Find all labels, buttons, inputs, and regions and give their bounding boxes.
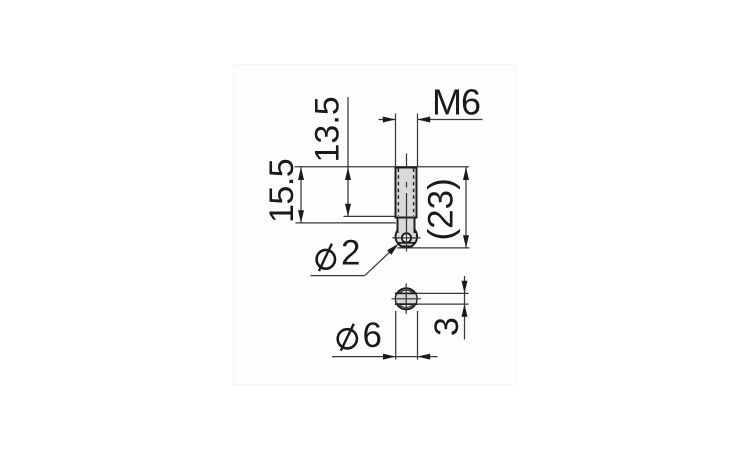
ball horizontal centerline [392,237,420,239]
extension line 13.5 bottom [344,215,397,217]
svg-text:3: 3 [428,317,466,336]
extension lines M6 [396,114,418,167]
threaded body M6 [396,168,417,218]
dimension line 15.5 [298,167,304,223]
extension line (23) bottom [397,247,470,249]
ball phi2 [402,233,411,242]
drawing panel background [234,65,516,385]
cylinder below thread [398,219,415,237]
svg-text:15.5: 15.5 [263,159,301,223]
dimension line 13.5 [345,97,351,216]
top extension line (shared, y=166.8) [295,166,470,168]
slot extension lines for 3 [418,293,469,304]
svg-text:2: 2 [341,234,360,273]
svg-text:(23): (23) [422,178,461,240]
bottom view slot band [394,293,419,304]
leader phi2 [311,244,399,276]
slot side-view chords [398,243,415,246]
ball housing sphere outline [396,226,418,248]
svg-text:M6: M6 [432,82,480,123]
vertical centerline [406,154,408,252]
extension line 15.5 bottom [296,222,397,224]
dimension line phi6 [332,354,438,360]
label 13.5 [309,96,347,162]
thread minor diameter dashed lines [398,169,413,217]
label phi6 [338,316,382,355]
label (23) [422,178,461,240]
dimension line 3 [462,276,468,340]
bottom view slot edges [395,293,418,304]
extension lines phi6 [396,311,418,360]
label 3 [428,317,466,336]
bottom view centerlines [392,284,421,314]
svg-text:13.5: 13.5 [309,96,347,162]
label M6 [432,82,480,123]
svg-text:6: 6 [363,316,382,355]
dimension line (23) [463,167,469,248]
bottom view thread minor circle [398,290,415,307]
label 15.5 [263,159,301,223]
bottom view outer circle phi6 [396,288,417,309]
label phi2 [317,234,361,273]
dimension line M6 [379,117,483,123]
